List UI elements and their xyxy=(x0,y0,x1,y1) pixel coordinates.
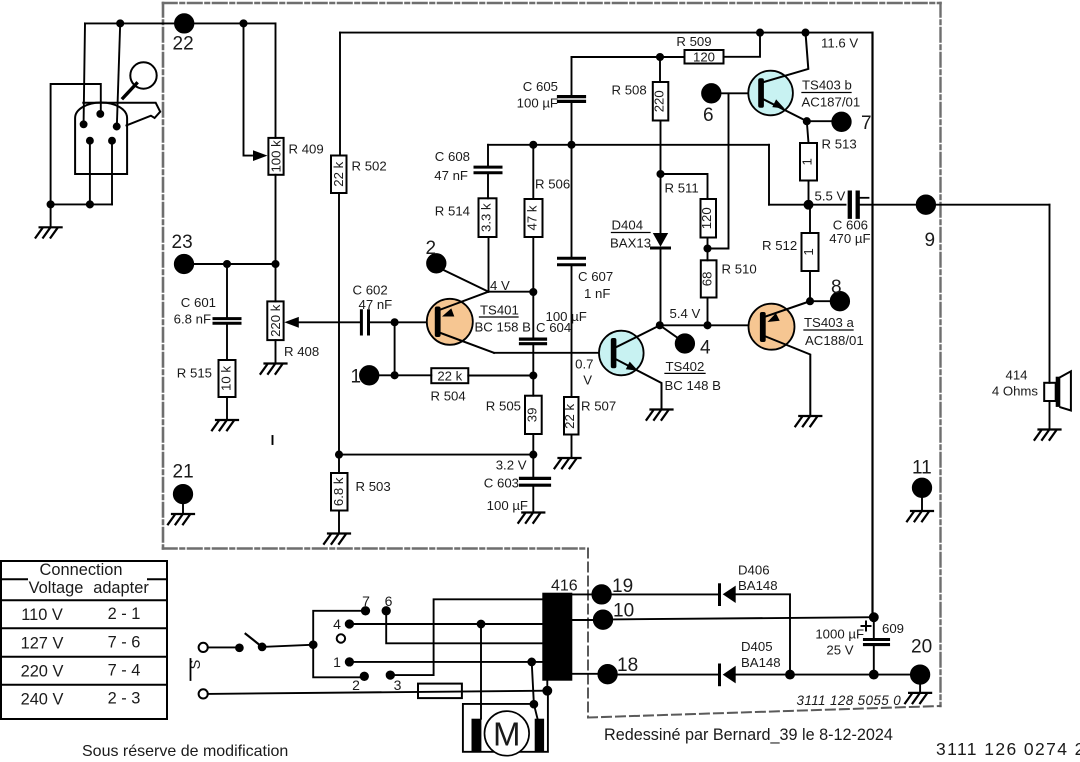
junction dot xyxy=(528,659,535,666)
wire: DIN pin bottom-left drop xyxy=(89,141,91,205)
wire: R409 wiper branch xyxy=(244,23,253,155)
motor brush left xyxy=(472,719,482,752)
svg-text:R 504: R 504 xyxy=(431,389,466,404)
wire: mid rail y=144.8 xyxy=(488,144,769,146)
node 22 xyxy=(175,14,193,32)
junction dot xyxy=(478,621,485,628)
svg-text:3111 128 5055 0: 3111 128 5055 0 xyxy=(797,693,902,708)
adapter pin 1 xyxy=(346,658,353,665)
svg-text:8: 8 xyxy=(831,277,842,298)
svg-text:25 V: 25 V xyxy=(826,643,853,658)
wire: node6 to TS403b base xyxy=(721,92,759,94)
node 10 xyxy=(572,619,594,621)
resistor R408 (potentiometer 220 k) xyxy=(275,264,277,301)
wire: pin3 row up to transformer top row xyxy=(390,599,542,675)
node 8 xyxy=(810,300,831,302)
resistor R508 220 xyxy=(659,57,661,82)
switch S terminal upper xyxy=(199,643,208,652)
junction dot xyxy=(568,142,574,148)
wire: node2 to 4V corner xyxy=(443,270,489,292)
wire: DIN plug left pin drop xyxy=(84,23,85,122)
svg-text:Redessiné par Bernard_39 le 8-: Redessiné par Bernard_39 le 8-12-2024 xyxy=(604,726,893,744)
junction dot xyxy=(786,671,794,679)
wire: pin4 row xyxy=(349,623,542,625)
junction dot xyxy=(870,671,878,679)
transistor TS403b AC187/01 xyxy=(748,71,793,116)
svg-text:R 513: R 513 xyxy=(822,137,857,152)
svg-text:BA148: BA148 xyxy=(738,578,778,593)
svg-text:1 nF: 1 nF xyxy=(584,286,610,301)
ground xyxy=(907,511,933,521)
node 4 xyxy=(660,325,680,339)
node 18 xyxy=(572,673,599,675)
junction dot xyxy=(530,289,536,295)
resistor R507 22 k xyxy=(564,397,579,435)
svg-text:22 k: 22 k xyxy=(331,161,346,186)
svg-text:100 µF: 100 µF xyxy=(546,309,587,324)
wire: 10 to C609 xyxy=(612,617,874,619)
svg-text:R 514: R 514 xyxy=(435,204,470,219)
svg-text:3.2 V: 3.2 V xyxy=(496,458,527,473)
svg-text:3111 126 0274 2: 3111 126 0274 2 xyxy=(936,739,1080,759)
wire: top input rail at y=23 xyxy=(85,22,275,24)
wire: pin1 slant to motor xyxy=(532,662,538,719)
svg-text:127 V: 127 V xyxy=(21,635,64,653)
knob circle of plug xyxy=(130,62,156,88)
capacitor C607 1 nF xyxy=(571,145,573,257)
svg-text:120: 120 xyxy=(693,49,715,64)
DIN pin bottom-right xyxy=(109,138,115,144)
svg-text:7: 7 xyxy=(362,593,370,609)
svg-text:R 508: R 508 xyxy=(612,83,647,98)
wire: DIN ground stem xyxy=(50,204,52,227)
wire: D404 to R511 xyxy=(661,174,708,199)
node 20 xyxy=(911,665,929,683)
DIN pin bottom-left xyxy=(87,138,93,144)
border: main dashed box right edge xyxy=(939,3,941,706)
DIN pin top-center xyxy=(97,111,103,117)
svg-text:D404: D404 xyxy=(612,218,644,233)
svg-text:7 - 4: 7 - 4 xyxy=(108,662,141,680)
svg-text:6: 6 xyxy=(385,593,393,609)
junction dot xyxy=(336,452,342,458)
svg-text:AC188/01: AC188/01 xyxy=(805,333,864,348)
svg-text:10 k: 10 k xyxy=(219,366,234,391)
junction dot xyxy=(530,452,536,458)
junction dot xyxy=(240,20,246,26)
wire: speaker feed xyxy=(1049,205,1051,383)
adapter open pin xyxy=(337,634,345,642)
node 9 xyxy=(917,196,935,214)
svg-text:2: 2 xyxy=(352,677,360,693)
wire: 3.2V row xyxy=(339,454,533,456)
adapter pin 3 xyxy=(387,671,394,678)
svg-text:3.3 k: 3.3 k xyxy=(479,203,494,232)
svg-text:BAX13: BAX13 xyxy=(610,236,651,251)
node 1 xyxy=(360,366,378,384)
knob tick xyxy=(123,84,137,99)
switch blade xyxy=(246,634,263,647)
wire: node1 riser xyxy=(394,322,396,375)
junction dot xyxy=(805,201,813,209)
svg-text:1: 1 xyxy=(351,367,362,388)
junction dot xyxy=(236,644,243,651)
wire: 19 to D406 xyxy=(611,593,718,595)
svg-text:TS401: TS401 xyxy=(480,303,519,318)
svg-text:R 511: R 511 xyxy=(665,181,699,196)
junction dot xyxy=(48,201,54,207)
junction dot xyxy=(802,29,808,35)
svg-text:22 k: 22 k xyxy=(562,404,577,429)
svg-text:C 602: C 602 xyxy=(353,283,388,298)
svg-text:Voltage: Voltage xyxy=(29,579,84,597)
svg-text:adapter: adapter xyxy=(93,579,149,597)
wire: 5.4V rail xyxy=(660,324,760,326)
ground xyxy=(212,420,238,430)
svg-text:R 503: R 503 xyxy=(356,479,391,494)
svg-text:BC 158 B: BC 158 B xyxy=(475,320,532,335)
motor frame xyxy=(463,691,548,752)
junction dot xyxy=(704,245,710,251)
svg-text:1: 1 xyxy=(801,248,816,255)
capacitor C604 100 µF xyxy=(521,339,546,344)
svg-text:414: 414 xyxy=(1005,368,1027,383)
svg-text:C 607: C 607 xyxy=(578,269,613,284)
svg-text:100 µF: 100 µF xyxy=(487,498,528,513)
svg-text:220 V: 220 V xyxy=(21,663,64,681)
resistor R506 47 k xyxy=(532,145,534,199)
junction dot xyxy=(870,613,878,621)
svg-text:Sous réserve de modification: Sous réserve de modification xyxy=(82,743,288,760)
svg-text:1: 1 xyxy=(800,158,815,165)
svg-text:TS402: TS402 xyxy=(666,359,705,374)
transistor TS402 BC148B xyxy=(599,331,644,376)
svg-text:R 509: R 509 xyxy=(676,34,711,49)
junction dot xyxy=(657,171,663,177)
svg-text:R 510: R 510 xyxy=(722,262,757,277)
svg-text:AC187/01: AC187/01 xyxy=(802,95,861,110)
svg-text:R 409: R 409 xyxy=(289,142,324,157)
svg-text:BC 148 B: BC 148 B xyxy=(665,378,722,393)
svg-text:4 V: 4 V xyxy=(490,278,510,293)
wire: R502 down to 3.2V row xyxy=(338,193,340,455)
svg-text:220: 220 xyxy=(652,90,667,112)
border: main dashed box bottom edge xyxy=(163,547,588,550)
wire: transformer bottom stub xyxy=(546,681,548,691)
svg-text:2: 2 xyxy=(426,238,437,259)
svg-text:416: 416 xyxy=(551,578,578,595)
wire: output line to node 9 xyxy=(769,204,846,206)
svg-text:7 - 6: 7 - 6 xyxy=(108,634,141,652)
svg-text:D406: D406 xyxy=(738,563,770,578)
wire: node 23 row xyxy=(184,263,276,265)
capacitor C605 100 µF xyxy=(572,56,661,58)
svg-text:0.7: 0.7 xyxy=(575,357,593,372)
DIN pin top-left xyxy=(81,121,87,127)
junction dot xyxy=(530,372,536,378)
svg-text:C 601: C 601 xyxy=(181,295,216,310)
stray tick mark xyxy=(272,436,274,444)
svg-text:2 - 1: 2 - 1 xyxy=(108,605,141,623)
svg-text:20: 20 xyxy=(911,637,932,658)
junction dot xyxy=(804,118,810,124)
junction dot xyxy=(310,641,317,648)
svg-text:5.4 V: 5.4 V xyxy=(670,306,701,321)
resistor R512 1 xyxy=(809,205,811,233)
ground xyxy=(905,693,931,703)
arrow: R409 wiper arrowhead xyxy=(253,150,268,161)
junction dot xyxy=(272,261,278,267)
svg-text:4 Ohms: 4 Ohms xyxy=(992,384,1039,399)
svg-text:39: 39 xyxy=(525,408,540,423)
table: voltage adapter connection xyxy=(1,561,167,719)
junction dot xyxy=(259,644,266,651)
resistor R515 10 k xyxy=(219,360,236,397)
wire: mains through fuse to transformer xyxy=(208,691,548,694)
ground xyxy=(555,458,581,468)
capacitor C606 470 µF xyxy=(850,193,858,217)
diode D405 BA148 xyxy=(718,665,721,685)
svg-text:21: 21 xyxy=(173,462,194,483)
border: main dashed box left edge xyxy=(162,3,165,549)
svg-text:TS403 a: TS403 a xyxy=(804,315,855,330)
wire: R504 to R505 junction xyxy=(468,375,533,377)
motor M xyxy=(485,711,530,756)
motor brush right xyxy=(535,719,544,752)
wire: slanted drop from junction to DIN right pin xyxy=(117,23,120,124)
DIN connector shell xyxy=(75,103,127,175)
wire: node1 row xyxy=(378,374,431,376)
svg-text:C 608: C 608 xyxy=(435,149,470,164)
svg-text:7: 7 xyxy=(861,113,872,134)
border: power supply box left dashed edge xyxy=(587,549,589,718)
svg-text:47 nF: 47 nF xyxy=(359,297,393,312)
resistor R510 68 xyxy=(701,260,717,297)
resistor R505 39 xyxy=(532,376,534,396)
svg-text:609: 609 xyxy=(882,621,904,636)
junction dot xyxy=(657,54,663,60)
node 23 xyxy=(175,255,193,273)
resistor R409 (potentiometer 100 k) xyxy=(275,23,277,137)
wire: right supply drop to power box xyxy=(871,33,873,618)
node 21 xyxy=(174,485,192,503)
border: main dashed box top edge xyxy=(163,2,941,5)
svg-text:6: 6 xyxy=(703,105,714,126)
ground xyxy=(36,227,62,237)
wire: pin4 drop to motor xyxy=(480,624,482,719)
resistor R513 1 xyxy=(807,121,809,143)
resistor R503 6.8 k xyxy=(338,455,340,473)
svg-text:3: 3 xyxy=(394,677,402,693)
DIN pin top-right xyxy=(114,124,120,130)
resistor R504 22 k xyxy=(431,368,468,383)
junction dot xyxy=(117,20,123,26)
svg-text:11: 11 xyxy=(912,458,932,479)
svg-text:M: M xyxy=(493,716,521,753)
svg-text:R 506: R 506 xyxy=(535,177,570,192)
svg-text:6.8 nF: 6.8 nF xyxy=(174,312,211,327)
wire: DIN bottom bus xyxy=(51,203,112,205)
wire: 4V corner to junction xyxy=(489,291,534,293)
svg-text:R 502: R 502 xyxy=(352,159,387,174)
svg-text:22 k: 22 k xyxy=(437,369,462,384)
adapter pin 4 xyxy=(346,620,353,627)
svg-text:23: 23 xyxy=(172,232,193,253)
svg-text:120: 120 xyxy=(699,207,714,229)
junction dot xyxy=(392,372,398,378)
ground xyxy=(1035,430,1061,440)
junction dot xyxy=(531,701,538,708)
adapter pin 2 xyxy=(361,673,368,680)
ground xyxy=(168,514,194,524)
adapter bracket xyxy=(313,611,363,678)
svg-text:22: 22 xyxy=(173,34,194,55)
svg-text:11.6 V: 11.6 V xyxy=(821,36,858,51)
resistor R509 120 xyxy=(660,56,685,58)
svg-text:110 V: 110 V xyxy=(21,606,63,624)
svg-text:1: 1 xyxy=(333,654,341,670)
diode D406 BA148 xyxy=(718,585,721,605)
resistor R502 22 k xyxy=(339,33,341,156)
node 7 xyxy=(807,120,833,122)
wire: feedback drop at x=769 xyxy=(768,145,770,205)
plug flag shape xyxy=(83,103,160,126)
svg-text:R 515: R 515 xyxy=(177,366,212,381)
junction dot xyxy=(392,319,398,325)
node 6 xyxy=(702,84,720,102)
svg-text:240 V: 240 V xyxy=(21,691,64,709)
svg-text:D405: D405 xyxy=(741,639,773,654)
svg-text:4: 4 xyxy=(700,338,711,359)
node 2 xyxy=(427,254,445,272)
node 11 xyxy=(913,479,931,497)
svg-text:R 507: R 507 xyxy=(581,399,616,414)
junction dot xyxy=(530,142,536,148)
svg-text:18: 18 xyxy=(617,655,638,676)
junction dot xyxy=(704,322,710,328)
svg-text:9: 9 xyxy=(925,230,936,251)
svg-text:4: 4 xyxy=(333,616,341,632)
junction dot xyxy=(543,687,551,695)
ground xyxy=(324,534,350,544)
fuse xyxy=(418,684,462,699)
transformer 416 core xyxy=(542,593,572,681)
svg-text:470 µF: 470 µF xyxy=(829,231,870,246)
switch S terminal lower xyxy=(199,689,208,698)
junction dot xyxy=(757,29,763,35)
resistor R514 3.3 k xyxy=(479,198,497,237)
svg-text:5.5 V: 5.5 V xyxy=(815,189,846,204)
svg-text:BA148: BA148 xyxy=(741,655,781,670)
resistor R511 120 xyxy=(701,199,717,238)
wire: pin6 drop xyxy=(386,611,542,644)
transistor TS401 BC158B xyxy=(427,299,473,345)
ground xyxy=(795,416,821,426)
wire: DIN pin bottom-right drop xyxy=(111,141,113,205)
svg-text:C 605: C 605 xyxy=(523,79,558,94)
svg-text:Connection: Connection xyxy=(40,561,123,579)
junction dot xyxy=(224,261,230,267)
adapter pin 6 xyxy=(383,607,390,614)
wire: switch to bracket xyxy=(262,645,313,647)
svg-text:2 - 3: 2 - 3 xyxy=(108,690,141,708)
adapter pin 7 xyxy=(362,607,369,614)
capacitor C602 47 nF xyxy=(361,311,368,334)
svg-text:220 k: 220 k xyxy=(268,304,283,337)
svg-text:1000 µF: 1000 µF xyxy=(815,627,864,642)
speaker 414 xyxy=(1044,383,1056,401)
capacitor C603 100 µF xyxy=(532,455,534,478)
wire: DIN outer loop xyxy=(51,84,101,204)
border: power supply box bottom dashed edge xyxy=(588,706,941,718)
ground xyxy=(518,513,544,523)
svg-text:R 505: R 505 xyxy=(486,399,521,414)
svg-text:100 µF: 100 µF xyxy=(517,96,558,111)
svg-text:TS403 b: TS403 b xyxy=(802,78,852,93)
svg-text:R 512: R 512 xyxy=(762,238,797,253)
svg-text:C 603: C 603 xyxy=(484,476,519,491)
wire: pin1 row xyxy=(349,661,542,663)
diode D404 BAX13 xyxy=(653,233,668,247)
transistor TS403a AC188/01 xyxy=(749,304,795,350)
arrow: R408 wiper arrowhead xyxy=(284,317,299,328)
svg-text:47 k: 47 k xyxy=(525,205,540,230)
junction dot xyxy=(807,298,813,304)
svg-text:6.8 k: 6.8 k xyxy=(331,477,346,506)
junction dot xyxy=(657,322,663,328)
svg-text:68: 68 xyxy=(700,272,715,287)
capacitor C601 6.8 nF xyxy=(226,264,228,318)
svg-text:100 k: 100 k xyxy=(269,140,284,173)
wire: TS401 collector to TS402 base xyxy=(494,352,611,354)
wire: R408 wiper to C602 xyxy=(298,321,361,323)
capacitor C609 1000 µF xyxy=(873,617,875,638)
svg-text:47 nF: 47 nF xyxy=(434,168,468,183)
svg-text:R 408: R 408 xyxy=(284,344,319,359)
junction dot xyxy=(87,201,93,207)
capacitor C608 47 nF xyxy=(487,145,489,166)
svg-text:V: V xyxy=(583,373,592,388)
wire: 18 to D405 xyxy=(617,674,718,676)
wire: R511 junction to node6 riser xyxy=(708,94,729,248)
wire: top supply rail 11.6V xyxy=(340,32,873,34)
wire: to switch xyxy=(208,646,237,648)
ground xyxy=(647,410,673,420)
ground xyxy=(261,364,287,374)
node 19 xyxy=(572,593,593,595)
